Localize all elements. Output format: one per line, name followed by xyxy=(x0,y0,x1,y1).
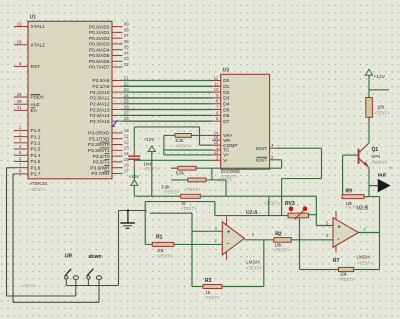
svg-text:30: 30 xyxy=(17,99,22,104)
svg-text:27: 27 xyxy=(124,110,129,115)
svg-text:P0.2/AD2: P0.2/AD2 xyxy=(89,36,110,42)
svg-text:16: 16 xyxy=(124,163,129,168)
svg-text:P1.0: P1.0 xyxy=(31,128,41,134)
svg-text:9: 9 xyxy=(216,93,219,98)
svg-text:RST: RST xyxy=(31,64,41,70)
svg-text:down: down xyxy=(89,254,102,260)
svg-text:37: 37 xyxy=(124,33,129,38)
svg-text:3: 3 xyxy=(215,226,218,231)
svg-text:<TEXT>: <TEXT> xyxy=(29,187,45,192)
svg-text:+: + xyxy=(227,229,230,235)
svg-text:10: 10 xyxy=(124,128,129,133)
svg-text:22: 22 xyxy=(124,81,129,86)
svg-text:UP.: UP. xyxy=(65,254,73,260)
svg-text:<TEXT>: <TEXT> xyxy=(264,200,280,205)
svg-text:LM324: LM324 xyxy=(246,260,260,265)
svg-text:XTAL1: XTAL1 xyxy=(31,24,46,30)
svg-text:<TEXT>: <TEXT> xyxy=(185,187,201,192)
svg-text:18: 18 xyxy=(17,40,22,45)
svg-text:6: 6 xyxy=(19,156,22,161)
svg-text:<TEXT>: <TEXT> xyxy=(157,254,173,259)
svg-text:5.6k: 5.6k xyxy=(176,171,185,176)
svg-text:D3: D3 xyxy=(223,96,229,102)
svg-text:35: 35 xyxy=(124,45,129,50)
svg-text:P2.2/A10: P2.2/A10 xyxy=(90,90,110,96)
svg-text:12: 12 xyxy=(124,140,129,145)
svg-text:out: out xyxy=(378,173,386,179)
svg-text:P3.2/INT0: P3.2/INT0 xyxy=(88,142,110,148)
svg-text:U3: U3 xyxy=(223,68,230,74)
svg-text:39: 39 xyxy=(124,22,129,27)
svg-text:P1.3: P1.3 xyxy=(31,147,41,153)
svg-text:P1.7: P1.7 xyxy=(31,172,41,178)
svg-text:<TEXT>: <TEXT> xyxy=(371,160,387,165)
svg-text:7: 7 xyxy=(19,162,22,167)
svg-text:28: 28 xyxy=(124,116,129,121)
svg-text:31: 31 xyxy=(17,105,22,110)
svg-text:29: 29 xyxy=(17,92,22,97)
svg-text:LM324: LM324 xyxy=(357,255,371,260)
svg-text:P1.6: P1.6 xyxy=(31,165,41,171)
svg-text:11: 11 xyxy=(124,134,129,139)
svg-text:R2: R2 xyxy=(275,231,282,237)
svg-text:P2.5/A13: P2.5/A13 xyxy=(90,107,110,113)
svg-text:13: 13 xyxy=(214,150,219,155)
svg-text:<TEXT>: <TEXT> xyxy=(274,247,290,252)
svg-text:P0.1/AD1: P0.1/AD1 xyxy=(89,30,110,36)
svg-text:2: 2 xyxy=(19,131,22,136)
svg-text:4: 4 xyxy=(19,144,22,149)
svg-text:5: 5 xyxy=(19,150,22,155)
svg-text:P0.0/AD0: P0.0/AD0 xyxy=(89,24,110,30)
svg-text:P3.6/WR: P3.6/WR xyxy=(90,165,110,171)
svg-text:D6: D6 xyxy=(223,113,229,119)
svg-text:D0: D0 xyxy=(223,78,229,84)
svg-text:V-: V- xyxy=(223,158,228,164)
svg-text:D5: D5 xyxy=(223,107,229,113)
svg-text:<TEXT>: <TEXT> xyxy=(357,260,373,265)
svg-text:6: 6 xyxy=(216,110,219,115)
svg-text:<TEXT>: <TEXT> xyxy=(204,295,220,300)
svg-text:10k: 10k xyxy=(346,201,354,206)
svg-text:34: 34 xyxy=(124,50,129,55)
svg-text:<TEXT>: <TEXT> xyxy=(22,283,38,288)
svg-text:<TEXT>: <TEXT> xyxy=(246,266,262,271)
svg-text:3: 3 xyxy=(216,155,219,160)
svg-text:26: 26 xyxy=(124,105,129,110)
svg-text:11: 11 xyxy=(214,81,219,86)
svg-text:5: 5 xyxy=(326,221,329,226)
svg-text:+: + xyxy=(389,166,392,171)
svg-text:2: 2 xyxy=(215,238,218,243)
svg-text:7: 7 xyxy=(364,227,367,232)
svg-text:P1.4: P1.4 xyxy=(31,153,41,159)
svg-text:1k: 1k xyxy=(206,290,211,295)
svg-text:25: 25 xyxy=(124,99,129,104)
svg-text:P3.3/INT1: P3.3/INT1 xyxy=(88,148,110,154)
svg-text:R7: R7 xyxy=(333,258,340,264)
svg-text:<TEXT>: <TEXT> xyxy=(175,143,191,148)
svg-text:19: 19 xyxy=(17,21,22,26)
svg-text:+12V: +12V xyxy=(129,174,139,179)
svg-text:P1.2: P1.2 xyxy=(31,141,41,147)
svg-text:17: 17 xyxy=(124,169,129,174)
svg-text:NPN: NPN xyxy=(371,154,380,159)
svg-text:D4: D4 xyxy=(223,101,229,107)
svg-text:4: 4 xyxy=(271,143,274,148)
svg-text:7: 7 xyxy=(216,105,219,110)
svg-text:24: 24 xyxy=(124,93,129,98)
svg-text:21: 21 xyxy=(124,76,129,81)
svg-text:PSEN: PSEN xyxy=(31,95,45,101)
svg-text:14: 14 xyxy=(124,151,129,156)
svg-text:P2.4/A12: P2.4/A12 xyxy=(90,101,110,107)
svg-text:R9: R9 xyxy=(346,188,353,194)
svg-text:6: 6 xyxy=(326,233,329,238)
svg-text:IOUT: IOUT xyxy=(256,158,268,164)
svg-text:P1.5: P1.5 xyxy=(31,159,41,165)
svg-text:R1: R1 xyxy=(156,235,163,241)
svg-text:ALE: ALE xyxy=(31,102,40,108)
svg-text:V+: V+ xyxy=(223,153,229,159)
svg-text:P0.5/AD5: P0.5/AD5 xyxy=(89,53,110,59)
svg-text:23: 23 xyxy=(124,87,129,92)
svg-text:P0.3/AD3: P0.3/AD3 xyxy=(89,42,110,48)
svg-text:<TEXT>: <TEXT> xyxy=(339,277,355,282)
svg-text:33: 33 xyxy=(124,56,129,61)
svg-text:9: 9 xyxy=(19,61,22,66)
svg-text:IOUT: IOUT xyxy=(256,146,268,152)
svg-text:8: 8 xyxy=(19,169,22,174)
svg-text:P1.1: P1.1 xyxy=(31,134,41,140)
svg-text:10: 10 xyxy=(214,87,219,92)
svg-text:2: 2 xyxy=(271,155,274,160)
svg-text:XTAL2: XTAL2 xyxy=(31,43,46,49)
svg-text:5: 5 xyxy=(216,116,219,121)
svg-text:36: 36 xyxy=(124,39,129,44)
svg-text:+12V: +12V xyxy=(374,74,386,80)
svg-text:Q1: Q1 xyxy=(372,147,379,153)
svg-text:+: + xyxy=(338,225,341,231)
svg-text:P2.0/A8: P2.0/A8 xyxy=(92,78,109,84)
svg-text:D1: D1 xyxy=(223,84,229,90)
svg-text:P0.7/AD7: P0.7/AD7 xyxy=(89,65,110,71)
svg-text:P2.7/A15: P2.7/A15 xyxy=(90,119,110,125)
svg-text:13: 13 xyxy=(124,145,129,150)
svg-text:8: 8 xyxy=(216,99,219,104)
svg-text:1: 1 xyxy=(19,125,22,130)
svg-text:<TEXT>: <TEXT> xyxy=(217,178,233,183)
svg-text:3: 3 xyxy=(19,138,22,143)
svg-text:U1: U1 xyxy=(30,15,37,21)
svg-text:<TEXT>: <TEXT> xyxy=(374,111,390,116)
svg-text:AT89C51: AT89C51 xyxy=(29,181,48,186)
svg-text:P2.6/A14: P2.6/A14 xyxy=(90,113,110,119)
svg-text:32: 32 xyxy=(124,62,129,67)
svg-text:-: - xyxy=(338,237,340,243)
svg-text:38: 38 xyxy=(124,27,129,32)
svg-text:RV3: RV3 xyxy=(285,201,295,207)
svg-text:P3.0/RXD: P3.0/RXD xyxy=(88,131,110,137)
svg-text:D2: D2 xyxy=(223,90,229,96)
svg-text:P0.6/AD6: P0.6/AD6 xyxy=(89,59,110,65)
svg-text:P2.1/A9: P2.1/A9 xyxy=(92,84,109,90)
svg-text:P3.4/T0: P3.4/T0 xyxy=(93,154,110,160)
svg-text:P2.3/A11: P2.3/A11 xyxy=(90,96,110,102)
svg-text:P3.1/TXD: P3.1/TXD xyxy=(89,136,110,142)
svg-text:EA: EA xyxy=(31,108,38,114)
svg-text:+12V: +12V xyxy=(144,137,154,142)
svg-text:<TEXT>: <TEXT> xyxy=(181,206,197,211)
svg-text:P3.5/T1: P3.5/T1 xyxy=(93,160,110,166)
svg-text:R3: R3 xyxy=(205,278,212,284)
svg-text:100: 100 xyxy=(377,105,385,110)
svg-text:12: 12 xyxy=(214,76,219,81)
svg-text:8.2k: 8.2k xyxy=(176,138,185,143)
svg-text:1: 1 xyxy=(252,232,255,237)
svg-text:10k: 10k xyxy=(157,248,165,253)
svg-text:-: - xyxy=(227,242,229,248)
svg-text:P0.4/AD4: P0.4/AD4 xyxy=(89,47,110,53)
svg-text:<TEXT>: <TEXT> xyxy=(163,189,179,194)
svg-text:D7: D7 xyxy=(223,119,229,125)
svg-text:P3.7/RD: P3.7/RD xyxy=(91,171,110,177)
